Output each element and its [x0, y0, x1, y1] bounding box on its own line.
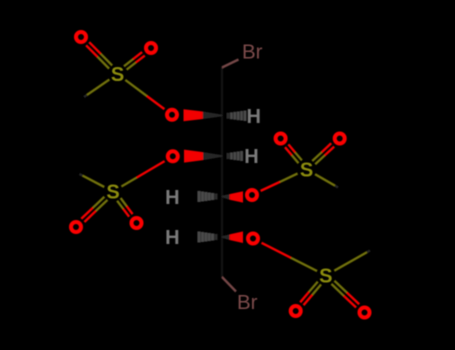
svg-text:Br: Br	[242, 41, 263, 64]
svg-text:H: H	[244, 146, 258, 168]
svg-text:H: H	[246, 106, 260, 128]
svg-text:S: S	[106, 182, 119, 204]
svg-text:S: S	[111, 64, 124, 86]
svg-text:S: S	[300, 160, 313, 182]
svg-text:H: H	[165, 187, 179, 209]
svg-text:H: H	[165, 227, 179, 249]
svg-text:Br: Br	[237, 291, 258, 314]
svg-text:S: S	[319, 266, 332, 288]
